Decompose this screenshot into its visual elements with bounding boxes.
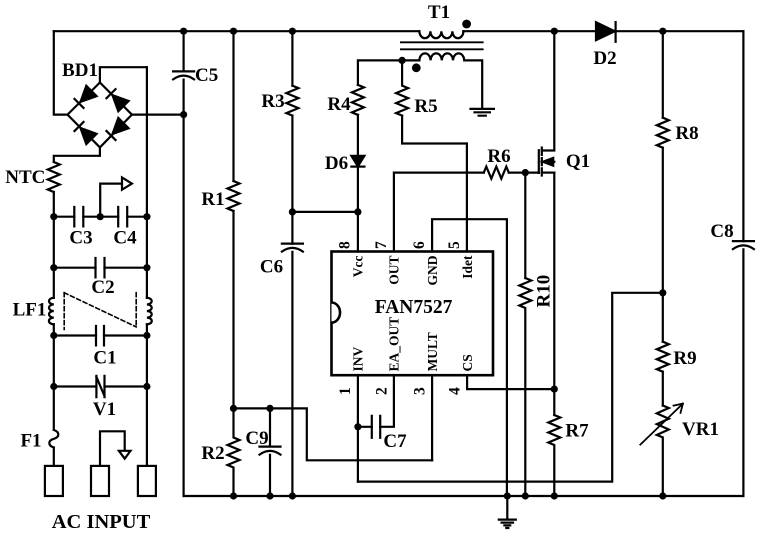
node top bus / R3	[289, 28, 296, 35]
svg-text:2: 2	[373, 387, 390, 395]
node bus / C9	[266, 492, 273, 499]
node R4 / T1 secondary	[399, 57, 406, 64]
node C1 row left	[50, 332, 57, 339]
wire divider node row to MULT corner	[234, 408, 433, 460]
svg-text:C1: C1	[93, 348, 116, 369]
capacitor C9	[260, 408, 281, 496]
wire Q1 source down to CS node	[553, 173, 555, 415]
svg-text:R2: R2	[201, 443, 224, 464]
transistor Q1 body arrow	[542, 161, 555, 163]
svg-text:BD1: BD1	[62, 60, 98, 81]
svg-text:C9: C9	[245, 428, 268, 449]
svg-text:8: 8	[337, 241, 354, 249]
transistor Q1 channel segments	[541, 148, 543, 176]
wire left column x183 upper (to C5)	[183, 31, 185, 71]
svg-text:D2: D2	[593, 48, 616, 69]
svg-text:R7: R7	[565, 421, 589, 442]
capacitor C7	[372, 416, 380, 438]
terminal 1 (AC)	[45, 466, 63, 496]
common-mode choke LF1 right winding	[147, 298, 152, 325]
wire R5 bottom to Idet pin 5	[402, 116, 467, 252]
resistor R4	[352, 85, 364, 115]
svg-text:F1: F1	[20, 431, 41, 452]
wire C1 row	[54, 334, 147, 336]
svg-text:CS: CS	[460, 354, 475, 371]
chassis arrow at AC input (open triangle down)	[119, 451, 131, 459]
svg-text:C5: C5	[195, 65, 218, 86]
node gate / R10	[522, 169, 529, 176]
node CS / source / R7	[551, 386, 558, 393]
wire F1 to terminal 1	[53, 448, 55, 466]
wire feedback node to R9	[662, 293, 664, 342]
svg-text:3: 3	[412, 387, 429, 395]
svg-text:C8: C8	[710, 221, 733, 242]
potentiometer VR1	[657, 406, 669, 497]
resistor R10	[519, 278, 531, 496]
wire bridge top vertex loop to right AC column	[100, 67, 147, 82]
common-mode choke LF1 left winding	[49, 298, 54, 325]
terminal 2 (AC)	[91, 466, 109, 496]
node C5 bottom / bridge	[180, 111, 187, 118]
wire V1 row	[54, 385, 147, 387]
wire chassis arrow at C3/C4 junction	[100, 184, 122, 217]
wire left column x183 lower (C5 to bus)	[183, 80, 185, 496]
wire R6 to gate	[509, 172, 539, 174]
wire middle AC terminal riser to chassis arrow	[100, 431, 125, 466]
wire C3/C4 row	[54, 216, 147, 218]
transformer T1 primary winding	[419, 31, 463, 38]
ground (T1 secondary)	[471, 109, 494, 116]
svg-text:5: 5	[446, 241, 463, 249]
wire bottom ground bus	[184, 495, 744, 497]
ground (main, below bus)	[499, 496, 516, 528]
wire CS pin 4 to source node	[467, 375, 554, 389]
wire bridge right vertex to x183 column	[132, 113, 184, 115]
wire INV pin 1 down through C7 node	[357, 375, 359, 481]
op-amp IC U1 FAN7527 body	[332, 252, 494, 376]
wire top bus left segment	[54, 30, 420, 32]
resistor R5	[396, 60, 408, 115]
wire D6 cathode to Vcc node	[357, 167, 359, 212]
node V1 row left	[50, 383, 57, 390]
transistor Q1 drain lead	[542, 31, 555, 150]
T1 primary phase dot	[462, 20, 471, 29]
node C2 row right	[143, 264, 150, 271]
transistor Q1 gate bar	[538, 150, 540, 173]
svg-text:1: 1	[337, 387, 354, 395]
svg-text:AC INPUT: AC INPUT	[52, 511, 151, 533]
svg-text:C2: C2	[91, 277, 114, 298]
node V1 row right	[143, 383, 150, 390]
fuse F1	[49, 430, 58, 448]
resistor R1	[228, 181, 240, 211]
wire top bus middle segment	[463, 30, 596, 32]
wire left column C3 row to C2 row	[53, 217, 55, 268]
wire R1 column top	[232, 31, 234, 181]
capacitor C8	[733, 241, 754, 249]
wire R3 column top	[291, 31, 293, 85]
terminal 3 (AC)	[138, 466, 156, 496]
svg-text:T1: T1	[428, 2, 450, 23]
wire R3 bottom to C6	[291, 116, 293, 244]
transistor Q1 source lead	[542, 172, 555, 174]
resistor R7	[548, 415, 560, 496]
node bus / GND pin	[504, 492, 511, 499]
svg-text:7: 7	[373, 241, 390, 249]
svg-text:R8: R8	[675, 123, 698, 144]
wire EA_OUT pin 2 to C7	[380, 375, 394, 427]
wire top bus right segment	[616, 30, 744, 32]
svg-text:R6: R6	[487, 146, 510, 167]
svg-text:Idet: Idet	[460, 255, 475, 279]
wire left column C2 row to LF1 coil	[53, 268, 55, 298]
LF1 coupling dashed marks	[64, 293, 136, 330]
wire left column C1 row to V1 row	[53, 336, 55, 387]
node bus / R10	[522, 492, 529, 499]
wire R8 bottom to feedback node	[662, 148, 664, 293]
svg-text:6: 6	[411, 241, 428, 249]
pin labels	[351, 255, 475, 372]
wire right AC column lower	[146, 324, 148, 466]
wire R9 bottom to VR1	[662, 372, 664, 406]
svg-text:INV: INV	[351, 346, 366, 371]
svg-text:R4: R4	[327, 94, 351, 115]
wire MULT pin 3 riser	[431, 375, 433, 460]
node R8 / R9 feedback	[659, 289, 666, 296]
capacitor C1	[96, 326, 104, 345]
node C3/C4 middle	[97, 213, 104, 220]
resistor R9	[657, 342, 669, 372]
capacitor C6	[282, 244, 303, 496]
resistor R6	[484, 167, 509, 179]
svg-text:D6: D6	[325, 153, 348, 174]
wire feedback INV to R8/R9 node	[358, 293, 663, 482]
svg-text:Vcc: Vcc	[351, 255, 366, 277]
svg-text:C6: C6	[260, 257, 283, 278]
node Vcc row right	[354, 208, 361, 215]
transformer T1 core	[401, 42, 483, 49]
svg-text:R9: R9	[673, 348, 696, 369]
wire right edge lower (from C8 to bus)	[742, 249, 744, 496]
resistor R8	[657, 118, 669, 148]
thermistor NTC	[48, 162, 60, 192]
wire R1 bottom to divider node	[232, 211, 234, 408]
node top bus / R8	[659, 28, 666, 35]
transformer T1 secondary winding	[402, 53, 482, 109]
wire C7 left lead	[358, 426, 372, 428]
wire C2 row	[54, 267, 147, 269]
svg-text:NTC: NTC	[5, 167, 45, 188]
node C4 row right	[143, 213, 150, 220]
node bus / C6	[289, 492, 296, 499]
svg-text:FAN7527: FAN7527	[375, 297, 453, 318]
node top bus / C5	[180, 28, 187, 35]
svg-text:V1: V1	[93, 399, 116, 420]
wire R8 column top	[662, 31, 664, 118]
wire gate node down to R10	[524, 173, 526, 278]
capacitor C3	[74, 207, 83, 226]
node bus / VR1	[659, 492, 666, 499]
chassis arrow at C3/C4 (open triangle right)	[122, 178, 132, 190]
wire right edge upper (to C8)	[742, 31, 744, 241]
svg-text:R5: R5	[414, 96, 437, 117]
svg-text:GND: GND	[425, 255, 440, 285]
svg-text:VR1: VR1	[682, 419, 719, 440]
svg-text:R10: R10	[534, 275, 555, 308]
svg-text:LF1: LF1	[13, 300, 47, 321]
bridge rectifier BD1	[68, 83, 132, 148]
wire left column V1 row to fuse F1	[53, 387, 55, 430]
wire Vcc pin 8 riser	[357, 212, 359, 252]
wire Vcc node row (R3 col to D6 col)	[292, 211, 358, 213]
node C1 row right	[143, 332, 150, 339]
capacitor C4	[118, 207, 127, 226]
capacitor C5	[173, 71, 194, 79]
svg-text:R1: R1	[201, 189, 224, 210]
svg-text:OUT: OUT	[387, 256, 402, 285]
diode D2	[596, 22, 615, 40]
wire left column LF1 coil to C1 row	[53, 324, 55, 335]
resistor R3	[286, 86, 298, 116]
svg-text:C3: C3	[69, 228, 92, 249]
node bus / R7	[551, 492, 558, 499]
wire R4 top lead and link to T1 secondary	[358, 60, 402, 85]
svg-text:C4: C4	[113, 228, 137, 249]
wire bridge bottom vertex to NTC	[54, 147, 100, 162]
diode D6	[351, 156, 364, 167]
wire top-left corner down to bridge left vertex	[54, 31, 68, 114]
node top bus / R1	[230, 28, 237, 35]
wire OUT pin 7 riser to R6	[394, 173, 484, 252]
resistor R2	[228, 408, 240, 496]
node C2 row left	[50, 264, 57, 271]
node divider R1/R2	[230, 405, 237, 412]
svg-text:4: 4	[447, 387, 464, 395]
wire right AC column upper	[146, 67, 148, 298]
svg-text:MULT: MULT	[425, 332, 440, 371]
svg-text:Q1: Q1	[566, 151, 590, 172]
T1 secondary phase dot	[412, 63, 421, 72]
svg-text:R3: R3	[261, 91, 284, 112]
node divider / C9	[266, 405, 273, 412]
node Vcc row left	[289, 208, 296, 215]
wire NTC to C3 row	[53, 192, 55, 217]
node bus / R2	[230, 492, 237, 499]
svg-text:C7: C7	[383, 431, 407, 452]
node top bus / Q1 drain	[551, 28, 558, 35]
varistor V1	[96, 376, 104, 397]
wire GND pin 6 path to ground bus	[432, 219, 507, 496]
node INV / C7	[354, 423, 361, 430]
node C3 row left	[50, 213, 57, 220]
capacitor C2	[96, 258, 105, 277]
wire R4 bottom to D6 anode	[357, 115, 359, 156]
svg-text:EA_OUT: EA_OUT	[387, 317, 402, 372]
